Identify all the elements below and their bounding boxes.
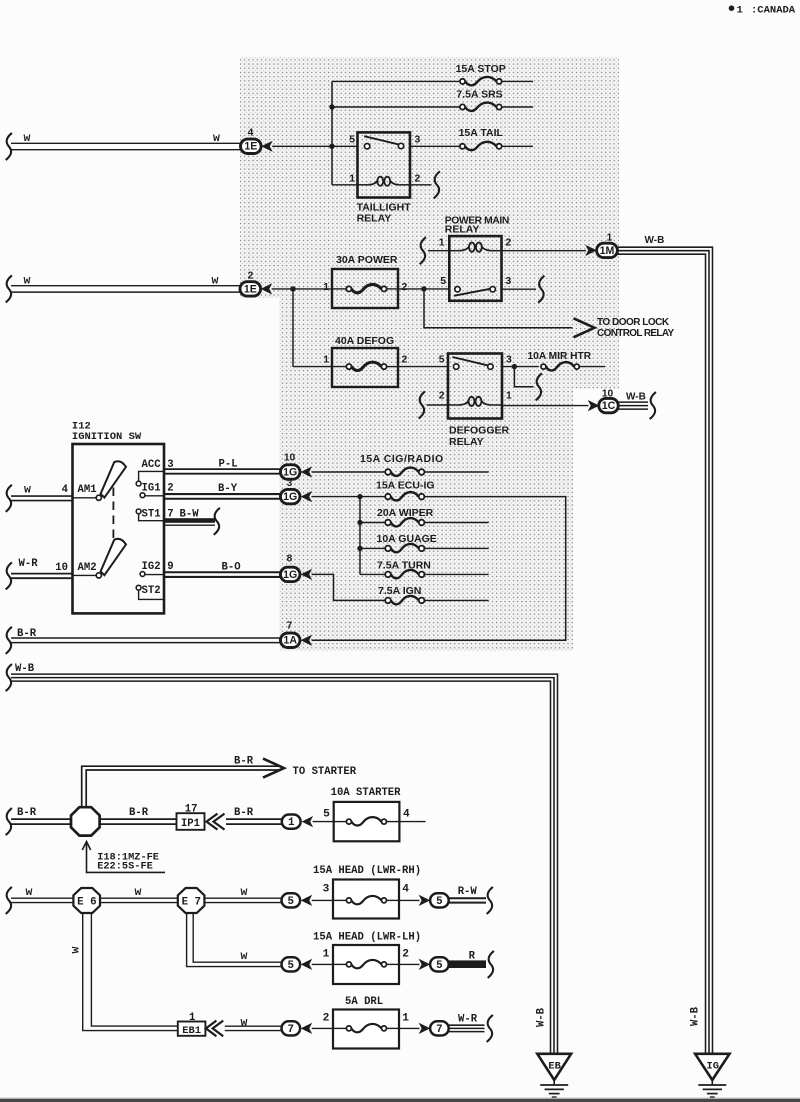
- svg-text:3: 3: [287, 478, 292, 489]
- wire 1G3 to ECU fuse: [312, 496, 386, 498]
- connector 1G pin8: [280, 567, 300, 581]
- svg-text:1: 1: [323, 948, 330, 960]
- svg-text:w: w: [24, 132, 31, 145]
- svg-text:EB: EB: [548, 1060, 561, 1072]
- wire 1E4 to taillight relay pin5: [272, 145, 357, 147]
- wire GUAGE right: [424, 547, 488, 549]
- svg-text:w: w: [241, 1016, 248, 1029]
- wire defogger pin1 to 1C: [502, 405, 589, 407]
- junction dot TAIL: [329, 144, 334, 149]
- wire branch below mir htr: [514, 367, 533, 387]
- fuse 15A CIG/RADIO: [385, 469, 391, 475]
- wire E7 to circled5 RH: [204, 897, 282, 899]
- wire coil feed taillight: [332, 184, 358, 186]
- svg-text:1: 1: [288, 817, 295, 829]
- wire 30A internal left: [332, 288, 346, 290]
- wire SRS row: [332, 106, 460, 108]
- wire IGN right: [424, 599, 488, 601]
- svg-text:1A: 1A: [283, 635, 297, 647]
- svg-text:2: 2: [402, 282, 408, 293]
- wire ACC internal: [139, 471, 164, 481]
- wire W to 1E pin2: [11, 285, 241, 287]
- connector 1M: [597, 243, 618, 257]
- svg-text:RELAY: RELAY: [357, 213, 392, 225]
- arrow into circled5 LH: [301, 959, 313, 970]
- fuse 15A HEAD LH element: [346, 962, 351, 967]
- wire EB1 to circled7: [225, 1025, 282, 1027]
- wire power main pin3 out: [502, 288, 537, 290]
- splice E6: [73, 888, 100, 913]
- fusebox 15A HEAD LH: [333, 945, 399, 984]
- junction dot mir htr: [512, 364, 517, 369]
- fuse 20A WIPER: [385, 520, 391, 526]
- fusebox 5A DRL: [333, 1010, 399, 1049]
- svg-text:2: 2: [323, 1012, 330, 1024]
- svg-text:IGNITION SW: IGNITION SW: [72, 431, 142, 443]
- wire STOP right: [502, 80, 533, 82]
- svg-text:1: 1: [607, 232, 613, 243]
- svg-text:TO STARTER: TO STARTER: [293, 766, 357, 778]
- svg-text:5: 5: [288, 896, 294, 908]
- svg-text:R-W: R-W: [458, 886, 478, 898]
- arrow out DRL: [419, 1023, 431, 1034]
- fusebox 40A DEFOG: [332, 348, 398, 387]
- svg-text:E 7: E 7: [182, 896, 201, 908]
- svg-text:7: 7: [288, 1024, 294, 1036]
- svg-text:B-R: B-R: [17, 807, 37, 819]
- coil defogger relay: [448, 404, 460, 406]
- wire defogger pin2 out: [427, 404, 449, 406]
- svg-text:W-B: W-B: [15, 663, 35, 675]
- callout arrow to splice: [87, 842, 166, 873]
- wire TAIL right: [502, 145, 533, 147]
- wire IG1 internal: [145, 495, 164, 497]
- svg-text:DEFOGGER: DEFOGGER: [449, 425, 510, 437]
- svg-text:9: 9: [167, 561, 173, 573]
- fuse 7.5A IGN: [385, 598, 391, 604]
- wire P-L ACC to 1G10: [164, 468, 281, 470]
- svg-text:3: 3: [506, 276, 512, 287]
- svg-text::CANADA: :CANADA: [751, 4, 796, 16]
- wire 1G8 to IGN fuse: [312, 574, 386, 600]
- fuse 15A ECU-IG: [385, 494, 391, 500]
- svg-text:2: 2: [506, 238, 512, 249]
- fuse 30A POWER element: [346, 286, 351, 291]
- contact ST2: [136, 585, 141, 590]
- svg-text:w: w: [212, 274, 219, 287]
- wire starter fuse internal R: [387, 821, 400, 823]
- wire E7 down to LH row: [187, 913, 282, 967]
- wire LH fuse internal R: [387, 963, 400, 965]
- shaded harness region: [240, 57, 619, 651]
- svg-text:4: 4: [402, 884, 409, 896]
- wire B-R up to starter: [82, 766, 281, 807]
- svg-text:5: 5: [349, 134, 355, 145]
- connector EB1: [178, 1022, 206, 1036]
- svg-text:7.5A SRS: 7.5A SRS: [456, 89, 502, 101]
- power main switch arm: [454, 289, 490, 296]
- connector circled 7 left: [282, 1021, 301, 1035]
- svg-text:15A HEAD (LWR-RH): 15A HEAD (LWR-RH): [313, 865, 421, 877]
- junction dot WIPER: [357, 520, 362, 525]
- coil taillight relay: [358, 184, 369, 186]
- svg-text:B-W: B-W: [180, 509, 200, 521]
- svg-text:10A MIR HTR: 10A MIR HTR: [528, 351, 592, 362]
- wire E6 to E7: [100, 897, 178, 899]
- wire defogger pin3 out: [502, 366, 539, 368]
- wire TAIL row: [410, 145, 460, 147]
- fuse 15A TAIL: [460, 144, 465, 149]
- wire break taillight pin2: [434, 171, 440, 198]
- arrow out RH: [419, 895, 431, 906]
- fuse 15A STOP: [460, 79, 465, 84]
- power main switch contact left: [455, 287, 460, 292]
- fuse 40A DEFOG element: [346, 364, 351, 369]
- svg-text:10: 10: [55, 562, 68, 574]
- connector 1G pin3: [280, 489, 300, 503]
- relay box power main: [449, 236, 501, 301]
- connector circled 1: [282, 815, 301, 829]
- svg-text:IP1: IP1: [181, 818, 200, 830]
- svg-text:W-B: W-B: [645, 235, 665, 246]
- arrow into 1A: [301, 635, 313, 646]
- svg-text:w: w: [24, 484, 31, 497]
- wire RH fuse internal L: [333, 899, 347, 901]
- connector 1C: [599, 398, 619, 412]
- wire DRL fuse internal L: [333, 1027, 347, 1029]
- svg-text:3: 3: [323, 884, 330, 896]
- svg-text:1G: 1G: [283, 569, 297, 581]
- wire starter fuse internal L: [334, 821, 347, 823]
- connector 1E pin 4: [241, 139, 262, 153]
- svg-text:1G: 1G: [283, 466, 297, 478]
- svg-text:40A DEFOG: 40A DEFOG: [335, 335, 394, 347]
- wire 30A internal right: [387, 288, 398, 290]
- contact AM2: [96, 573, 101, 578]
- svg-text:AM2: AM2: [78, 562, 97, 574]
- svg-text:5: 5: [440, 276, 446, 287]
- wire ST1 internal: [139, 514, 164, 521]
- svg-text:RELAY: RELAY: [445, 224, 480, 236]
- header marker CANADA: [729, 5, 735, 11]
- wire to RH fuse: [312, 899, 333, 901]
- svg-text:w: w: [213, 132, 220, 145]
- wire WIPER left: [360, 522, 385, 524]
- wire DRL fuse out: [399, 1027, 420, 1029]
- wire break left row1: [6, 133, 12, 160]
- arrow into 1G8: [301, 569, 313, 580]
- arrow into circled5 RH: [301, 895, 313, 906]
- svg-text:7.5A IGN: 7.5A IGN: [378, 585, 421, 597]
- fusebox 10A STARTER: [334, 802, 400, 841]
- wire break power main pin1: [420, 237, 426, 264]
- svg-text:5: 5: [436, 960, 442, 972]
- arrow into circled7: [301, 1023, 313, 1034]
- ignition switch box I12: [73, 444, 165, 613]
- wire mir htr right: [579, 366, 605, 368]
- arrow into 1E pin4: [261, 141, 273, 152]
- wire W-B from 1M down right side to IG ground: [617, 247, 712, 1053]
- blade AM2: [101, 539, 126, 575]
- svg-text:1G: 1G: [283, 491, 297, 503]
- svg-text:20A WIPER: 20A WIPER: [377, 507, 434, 519]
- svg-text:ST1: ST1: [142, 509, 161, 521]
- wire 40A to defogger pin5: [398, 366, 448, 368]
- svg-text:1E: 1E: [244, 141, 257, 153]
- arrow into 1G10: [301, 466, 313, 477]
- contact ST1: [136, 509, 141, 514]
- wire break 1C right: [650, 392, 656, 419]
- wire break left B-R row: [6, 808, 12, 835]
- svg-text:5: 5: [323, 809, 330, 821]
- svg-text:RELAY: RELAY: [449, 436, 484, 448]
- wire break defogger pin2: [419, 392, 425, 419]
- relay box defogger: [448, 354, 502, 419]
- svg-text:1: 1: [506, 391, 512, 402]
- junction dot SRS: [329, 104, 334, 109]
- svg-text:2: 2: [402, 948, 409, 960]
- svg-text:E22:5S-FE: E22:5S-FE: [97, 861, 153, 873]
- svg-text:AM1: AM1: [78, 484, 97, 496]
- open arrow to door lock: [574, 318, 595, 337]
- svg-text:w: w: [135, 886, 142, 899]
- wire starter fuse out: [399, 821, 425, 823]
- svg-text:5: 5: [436, 896, 442, 908]
- taillight switch contact left: [364, 144, 369, 149]
- wire break B-W: [214, 508, 220, 535]
- connector circled 7 right: [430, 1021, 449, 1035]
- svg-text:w: w: [241, 950, 248, 963]
- open arrow to starter: [263, 759, 284, 778]
- svg-text:E 6: E 6: [77, 896, 96, 908]
- wire W-B to EB ground: [11, 674, 558, 1053]
- arrow into 1M: [585, 245, 597, 256]
- fuse 7.5A TURN: [385, 572, 391, 578]
- fuse 10A MIR HTR: [541, 364, 546, 369]
- svg-text:w: w: [70, 946, 83, 953]
- wire break W-R: [487, 1015, 493, 1042]
- svg-text:IG1: IG1: [142, 482, 161, 494]
- defogger switch arm: [452, 357, 488, 366]
- svg-text:IG2: IG2: [142, 561, 161, 573]
- wire into 40A fuse: [293, 366, 346, 368]
- wire WIPER right: [424, 522, 488, 524]
- junction bus vertical row1: [331, 81, 333, 184]
- wire circled1 to starter fuse: [313, 821, 334, 823]
- svg-text:7.5A TURN: 7.5A TURN: [377, 560, 431, 572]
- wire W to E6: [11, 897, 73, 899]
- wire W to AM1: [11, 495, 73, 497]
- wire W-R to AM2: [11, 573, 73, 575]
- wire CIG right: [424, 471, 488, 473]
- svg-text:B-R: B-R: [234, 756, 254, 768]
- svg-text:15A HEAD (LWR-LH): 15A HEAD (LWR-LH): [313, 931, 421, 943]
- wire B-O IG2 to 1G8: [164, 571, 281, 573]
- connector circled 5 LH left: [282, 957, 301, 971]
- taillight switch contact right: [398, 143, 403, 148]
- fusebox 15A HEAD RH: [333, 880, 399, 919]
- svg-text:3: 3: [506, 354, 512, 365]
- svg-text:ACC: ACC: [142, 459, 162, 471]
- wire R-W: [449, 897, 486, 899]
- wire power main pin1 out: [428, 250, 449, 252]
- svg-text:W-R: W-R: [458, 1014, 478, 1026]
- chevrons IP1: [207, 814, 218, 830]
- svg-text:10A STARTER: 10A STARTER: [331, 787, 402, 799]
- svg-text:TO DOOR LOCK: TO DOOR LOCK: [597, 317, 670, 328]
- fuse 10A GUAGE: [385, 546, 391, 552]
- connector IP1: [177, 813, 205, 830]
- wire RH fuse internal R: [387, 899, 400, 901]
- wire AM1 internal stub: [73, 497, 97, 499]
- wire break left E row: [6, 887, 12, 914]
- svg-text:w: w: [241, 886, 248, 899]
- svg-text:4: 4: [62, 484, 69, 496]
- svg-text:7: 7: [287, 621, 293, 632]
- svg-text:2: 2: [439, 391, 445, 402]
- connector circled 5 LH right: [430, 957, 449, 971]
- arrow into circled1: [302, 816, 314, 827]
- svg-text:2: 2: [167, 482, 173, 494]
- connector 1E pin 2: [240, 282, 261, 296]
- dashed link between blades: [112, 488, 114, 539]
- wire break mir htr branch: [536, 373, 542, 400]
- wire TURN right: [424, 573, 488, 575]
- arrow into 1E pin2: [261, 283, 273, 294]
- wire break R: [488, 951, 494, 978]
- fuse 7.5A SRS: [460, 104, 465, 109]
- svg-text:10: 10: [284, 452, 296, 463]
- fusebox 30A POWER: [332, 269, 398, 308]
- svg-text:B-R: B-R: [129, 807, 149, 819]
- wire B-R to splice: [11, 818, 71, 820]
- wire break left 1A row: [6, 627, 12, 654]
- connector circled 5 RH right: [430, 893, 449, 907]
- svg-text:ST2: ST2: [142, 585, 161, 597]
- bus vertical fuses: [359, 497, 361, 575]
- wire W to 1E pin4: [11, 142, 241, 144]
- fuse 10A STARTER element: [346, 819, 351, 824]
- wire break power main pin3: [538, 276, 544, 303]
- splice octagon: [71, 807, 100, 835]
- defogger switch contact right: [488, 364, 493, 369]
- contact AM1: [96, 495, 101, 500]
- connector circled 5 RH left: [282, 893, 301, 907]
- chevrons EB1: [206, 1021, 217, 1037]
- svg-text:30A POWER: 30A POWER: [336, 254, 398, 266]
- svg-text:4: 4: [248, 128, 254, 139]
- fuse 5A DRL element: [346, 1026, 351, 1031]
- relay box taillight: [358, 132, 411, 197]
- svg-text:15A STOP: 15A STOP: [456, 63, 506, 75]
- wire DRL fuse internal R: [387, 1027, 400, 1029]
- svg-text:1E: 1E: [244, 283, 257, 295]
- wire B-R to 1A: [11, 637, 281, 639]
- ground EB: [537, 1054, 571, 1080]
- wire B-Y IG1 to 1G3: [164, 493, 281, 495]
- svg-text:2: 2: [248, 270, 254, 281]
- wire IP1 to circled1: [226, 818, 282, 820]
- wire IG2 internal: [145, 574, 164, 576]
- junction dot row2: [290, 286, 295, 291]
- svg-text:3: 3: [415, 134, 421, 145]
- svg-text:1C: 1C: [602, 400, 616, 412]
- svg-text:7: 7: [436, 1024, 442, 1036]
- defogger switch contact left: [454, 364, 459, 369]
- fuse 15A HEAD RH element: [346, 898, 351, 903]
- taillight switch arm: [364, 136, 398, 144]
- wire break left row2: [6, 275, 12, 302]
- svg-text:B-R: B-R: [17, 628, 37, 640]
- svg-text:1: 1: [323, 282, 329, 293]
- wire R thick: [449, 960, 486, 968]
- svg-text:w: w: [24, 274, 31, 287]
- power main switch contact right: [490, 287, 495, 292]
- wire TURN left: [360, 573, 385, 575]
- svg-text:w: w: [26, 886, 33, 899]
- contact IG2: [140, 572, 145, 577]
- wire AM2 internal stub: [73, 574, 97, 576]
- wire 1E2 to fuse 30A: [272, 288, 332, 290]
- wire power main pin2 to 1M: [502, 250, 587, 252]
- wire E6 down to DRL row: [83, 913, 178, 1031]
- svg-text:1: 1: [323, 354, 329, 365]
- wire STOP row: [332, 80, 460, 82]
- svg-text:1: 1: [349, 173, 355, 184]
- wire 40A internal right: [387, 366, 398, 368]
- svg-text:CONTROL RELAY: CONTROL RELAY: [597, 328, 675, 339]
- contact IG1: [140, 493, 145, 498]
- wire down to defog row: [292, 289, 294, 367]
- svg-text:4: 4: [403, 809, 410, 821]
- svg-text:2: 2: [415, 173, 421, 184]
- arrow into 1C: [588, 400, 600, 411]
- wire break left W-B row: [6, 664, 12, 691]
- wire branch to door lock relay: [424, 289, 573, 328]
- svg-text:1: 1: [439, 238, 445, 249]
- coil power main relay: [449, 250, 460, 252]
- svg-text:5: 5: [439, 354, 445, 365]
- wire LH fuse internal L: [333, 963, 347, 965]
- wire taillight pin2 out: [410, 184, 432, 186]
- wire splice to IP1: [100, 818, 177, 820]
- connector 1A pin7: [280, 633, 300, 647]
- wire 1G10 to CIG fuse: [312, 471, 386, 473]
- wire break left AM1: [6, 485, 12, 512]
- wire GUAGE left: [360, 547, 385, 549]
- wire W-R out: [449, 1024, 485, 1026]
- wire break R-W: [487, 887, 493, 914]
- svg-text:1: 1: [737, 4, 743, 16]
- svg-text:B-R: B-R: [234, 807, 254, 819]
- svg-text:8: 8: [287, 554, 293, 565]
- ground IG: [695, 1054, 729, 1080]
- wire 30A to relay pin5: [398, 288, 449, 290]
- contact ACC: [136, 481, 141, 486]
- svg-text:5: 5: [288, 960, 294, 972]
- svg-text:IG: IG: [706, 1060, 718, 1072]
- wire to LH fuse: [312, 963, 333, 965]
- junction dot door lock branch: [421, 286, 426, 291]
- svg-text:10A GUAGE: 10A GUAGE: [377, 533, 437, 545]
- svg-text:2: 2: [402, 354, 408, 365]
- junction dot ECU bus: [357, 494, 362, 499]
- svg-text:EB1: EB1: [182, 1025, 201, 1037]
- wire SRS right: [502, 106, 533, 108]
- svg-text:15A TAIL: 15A TAIL: [459, 127, 504, 139]
- svg-text:1: 1: [402, 1012, 409, 1024]
- page bottom bar: [0, 1098, 800, 1099]
